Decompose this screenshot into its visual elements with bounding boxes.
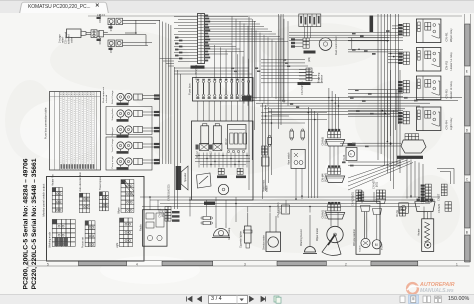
power max switch [262, 146, 265, 149]
diagonal wires from CN-W1 [348, 159, 404, 178]
wire labels right of radio [172, 211, 180, 213]
wires P1 table to dial [304, 27, 306, 39]
pin wire labels right of connector [205, 15, 208, 17]
window washer box [356, 201, 380, 254]
left vertical bundle [159, 20, 161, 164]
wires fanning left from connector [174, 16, 198, 18]
CN-M5 to CN-M4 verticals [329, 146, 331, 168]
CN-W1 feed lines [340, 142, 401, 144]
wires above room lamp [215, 197, 217, 222]
relay CN-R1 [403, 24, 406, 27]
layout icons right [400, 296, 405, 303]
prev page btn [198, 297, 202, 302]
bottom bus lines [140, 196, 440, 198]
connector CN-M4 [328, 168, 331, 171]
connector CN-M25 [415, 202, 435, 212]
browser tab bar [0, 0, 474, 15]
relay R3 feed lines [348, 89, 403, 91]
resistor assembly box [192, 121, 254, 200]
relay R4 feed lines [348, 110, 403, 112]
connector CN-01 [399, 203, 409, 214]
connector CN-S9 [399, 207, 402, 210]
wires from solenoid blocks to right [123, 19, 161, 21]
sub box with resistors [228, 125, 247, 150]
diode CC-1157 left [290, 131, 294, 138]
bottom area drop wires [149, 197, 151, 210]
sheet right border bar [464, 14, 466, 262]
fuel control dial table [299, 14, 321, 27]
relay R2 feed stubs [388, 53, 403, 55]
wire corner left of relays [351, 38, 353, 50]
fuse box [193, 78, 254, 102]
monitor panel switch output box [47, 177, 145, 262]
switch grid Light [120, 218, 124, 222]
relay R1 feed stubs [392, 25, 403, 27]
trimming resistor connector CN-P10 [306, 68, 309, 71]
switch grid Power set [85, 221, 88, 225]
page copy icons [274, 296, 279, 302]
last page btn [261, 297, 266, 302]
connector CN-W1 [405, 134, 408, 137]
vertical wires right-center [383, 110, 385, 165]
harness code label [370, 16, 374, 33]
resistor R-left [201, 126, 209, 144]
horn switch drops [295, 168, 297, 199]
label ASW [204, 202, 215, 205]
CN-M5 feed verticals [328, 88, 330, 132]
center-left long verticals [262, 103, 264, 199]
relay CN-R4 [403, 112, 406, 115]
long vertical wires [248, 17, 250, 191]
fuse pair [203, 216, 211, 219]
fuse box feed drops [214, 45, 216, 80]
fuse amp label 30A [242, 96, 252, 101]
diode grid CN-D3 [237, 168, 240, 171]
wires fanning right from connector [204, 16, 248, 18]
solenoid valve body [67, 29, 82, 38]
center horizontals y112-123 [261, 112, 327, 114]
drop wires to bottom row [247, 207, 249, 213]
CN connectors above washer [358, 192, 361, 195]
buzzer circle [218, 184, 228, 194]
left vertical wires [174, 67, 176, 209]
switch grid Working mode [52, 219, 57, 224]
scattered wire labels right half [352, 33, 356, 35]
vertical bundle center descending [231, 17, 233, 98]
connector CN-M1 [328, 205, 331, 208]
connector CN-M05(M4) tall strip [198, 14, 205, 64]
first page btn [187, 297, 193, 302]
scattered wire labels center [255, 67, 258, 69]
fuse box connection table [50, 92, 101, 171]
resistor R-right [213, 126, 221, 144]
mid horizontal bus lines [174, 67, 249, 69]
relay CN-R2 [403, 52, 406, 55]
switch grid Auto-deceleration [79, 193, 82, 197]
center verticals x308-318 [307, 107, 309, 198]
working mode dark cells [55, 237, 59, 241]
wire mesh in box [195, 155, 250, 157]
right top bus lines [289, 32, 403, 34]
CN-M05 label [191, 66, 205, 69]
bottom toolbar [0, 294, 474, 304]
sheet bottom border bar [28, 260, 470, 262]
relay CN-R3 [403, 81, 406, 84]
diode grid CN-D1 [218, 168, 221, 171]
switch grid Heater fan [52, 188, 55, 192]
vertical wires heater to connector [423, 212, 425, 219]
wire loop CN-S7 [437, 168, 454, 184]
connector CN-13 bowtie [213, 144, 222, 151]
connector CN-24 [346, 148, 357, 161]
diode block CN-09 lower [108, 40, 115, 47]
small contact row [227, 150, 229, 152]
relay feed vertical bundle [377, 14, 379, 160]
wire staircase bends [248, 97, 462, 99]
diode block CN-09 upper [108, 18, 115, 25]
fuel control dial [319, 38, 332, 51]
connector CN-V7 [91, 30, 99, 38]
fuse resistor 10A [268, 137, 272, 144]
scan mottle [5, 23, 460, 253]
connector right of CN-M25 [445, 202, 448, 205]
radio box [143, 210, 168, 247]
switch grid Travel speed [99, 192, 102, 196]
tilted relay [197, 173, 212, 188]
diode CC-1157 right [301, 131, 305, 138]
horn switch box [291, 149, 305, 168]
connector CN-07 [282, 205, 290, 214]
solenoid group frame [106, 137, 152, 170]
connector CN-M5 [328, 132, 331, 135]
next page btn [250, 297, 254, 302]
sheet top border line [88, 15, 462, 17]
bus lines y162 [348, 161, 401, 163]
washer switch stem and inner connectors [361, 206, 382, 215]
verticals to bottom-right connectors [406, 158, 408, 199]
connector CN-12 bowtie [200, 144, 209, 151]
switch grid Wiper [121, 180, 125, 184]
fuse wire labels [196, 97, 199, 99]
wire labels on left fan [175, 37, 178, 39]
